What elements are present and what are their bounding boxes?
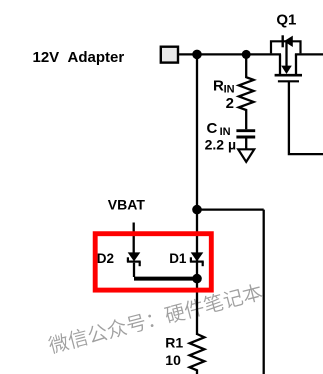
wire: right branch down (263, 210, 265, 374)
transistor Q1 body-diode loop (271, 41, 301, 53)
Q1 body diode cathode bar (282, 35, 284, 47)
wire: Q1 to right edge (295, 53, 323, 55)
wire: adapter to Q1 drain (179, 53, 281, 55)
svg-text:R1: R1 (165, 335, 183, 351)
Q1 right lead (295, 54, 297, 75)
svg-text:VBAT: VBAT (108, 196, 146, 212)
svg-text:D1: D1 (169, 251, 187, 266)
svg-text:12V Adapter: 12V Adapter (33, 49, 125, 66)
resistor RIN zigzag (239, 54, 254, 129)
Q1 source arrow stem (285, 41, 287, 67)
resistor R1 zigzag (190, 334, 205, 374)
svg-text:Q1: Q1 (276, 11, 296, 28)
Q1 channel bar (275, 74, 302, 77)
Q1 left (drain) lead (279, 54, 281, 75)
wire: CIN to ground (245, 138, 247, 149)
Q1 gate plate (278, 80, 299, 82)
svg-text:IN: IN (224, 84, 235, 96)
svg-text:2.2 µ: 2.2 µ (205, 136, 236, 152)
junction dot RIN tap (242, 50, 251, 59)
capacitor CIN plates (236, 129, 255, 132)
wire: branch right (197, 208, 264, 210)
junction dot node VIN (192, 50, 202, 60)
Q1 source arrowhead (281, 66, 292, 74)
svg-text:2: 2 (226, 95, 234, 112)
svg-text:C: C (207, 120, 218, 137)
diode D1 (schottky) (190, 252, 204, 266)
connector J1 (adapter input) (161, 47, 178, 63)
watermark (47, 282, 264, 355)
svg-text:10: 10 (165, 352, 181, 368)
wire: D2 cathode to D1 cathode (thick) (134, 277, 197, 281)
wire: VBAT lead down to D2 (133, 223, 135, 255)
Q1 body diode triangle (284, 36, 293, 47)
svg-text:D2: D2 (97, 251, 114, 266)
junction dot branch node (192, 205, 202, 215)
ground (238, 149, 254, 162)
red highlight box (95, 234, 211, 290)
wire: node VIN down to D1 and R1 (196, 54, 198, 335)
wire: Q1 gate down and right (289, 81, 323, 154)
junction dot at D1 cathode node (192, 274, 202, 284)
diode D2 (schottky) (127, 252, 141, 277)
svg-text:R: R (213, 77, 224, 94)
